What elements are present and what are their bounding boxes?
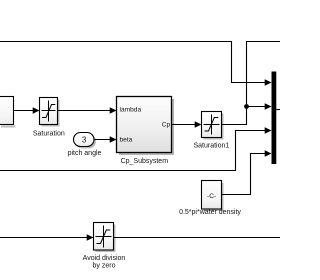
wire bottom into Avoid division block [0,234,94,241]
svg-text:0.5*pi*water density: 0.5*pi*water density [179,209,241,216]
svg-text:Cp_Subsystem: Cp_Subsystem [121,158,169,165]
block Saturation R1 [40,98,60,127]
wire pitch angle to beta port [94,136,117,143]
label 0.5*pi*water density [179,209,241,216]
svg-text:-C-: -C- [207,193,216,200]
block Avoid division by zero R3 [94,223,116,253]
wire Saturation1 up to top right exit [222,42,281,125]
subsystem Cp_Subsystem U1 [117,97,175,156]
label Saturation [33,131,65,138]
label pitch angle [68,150,102,157]
block Saturation1 R2 [202,112,224,140]
constant pitch angle (3) [74,133,97,149]
svg-text:Cp: Cp [162,121,171,128]
svg-text:by zero: by zero [93,263,116,270]
svg-text:pitch angle: pitch angle [68,150,102,157]
label Saturation1 [193,143,229,150]
svg-text:Avoid division: Avoid division [83,255,126,262]
wire top line into mux port 1 [0,42,272,86]
wire In to Saturation [14,107,40,114]
label Avoid division by zero [83,255,126,270]
wire Cp to Saturation1 [172,121,202,128]
wire junction to mux port 2 [247,103,272,110]
svg-text:3: 3 [82,136,87,145]
block In (cut off at left edge) [0,97,16,128]
wire Saturation to lambda port [58,107,117,114]
wire -C- into mux port 4 [222,150,272,194]
wire long mid line into mux port 3 [0,127,272,170]
constant -C- [202,181,224,212]
mux bar [272,72,281,165]
junction dot node A [244,104,249,109]
wire Avoid division output to right edge [114,237,281,239]
label Cp_Subsystem [121,158,169,165]
svg-text:Saturation1: Saturation1 [193,143,229,150]
svg-text:lambda: lambda [120,106,142,113]
svg-text:beta: beta [120,136,133,143]
svg-text:Saturation: Saturation [33,131,65,138]
